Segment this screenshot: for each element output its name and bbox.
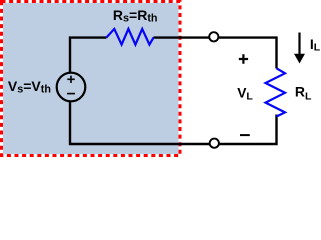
svg-text:VL: VL: [237, 85, 253, 102]
svg-text:IL: IL: [310, 36, 321, 54]
svg-text:RL: RL: [295, 83, 312, 102]
